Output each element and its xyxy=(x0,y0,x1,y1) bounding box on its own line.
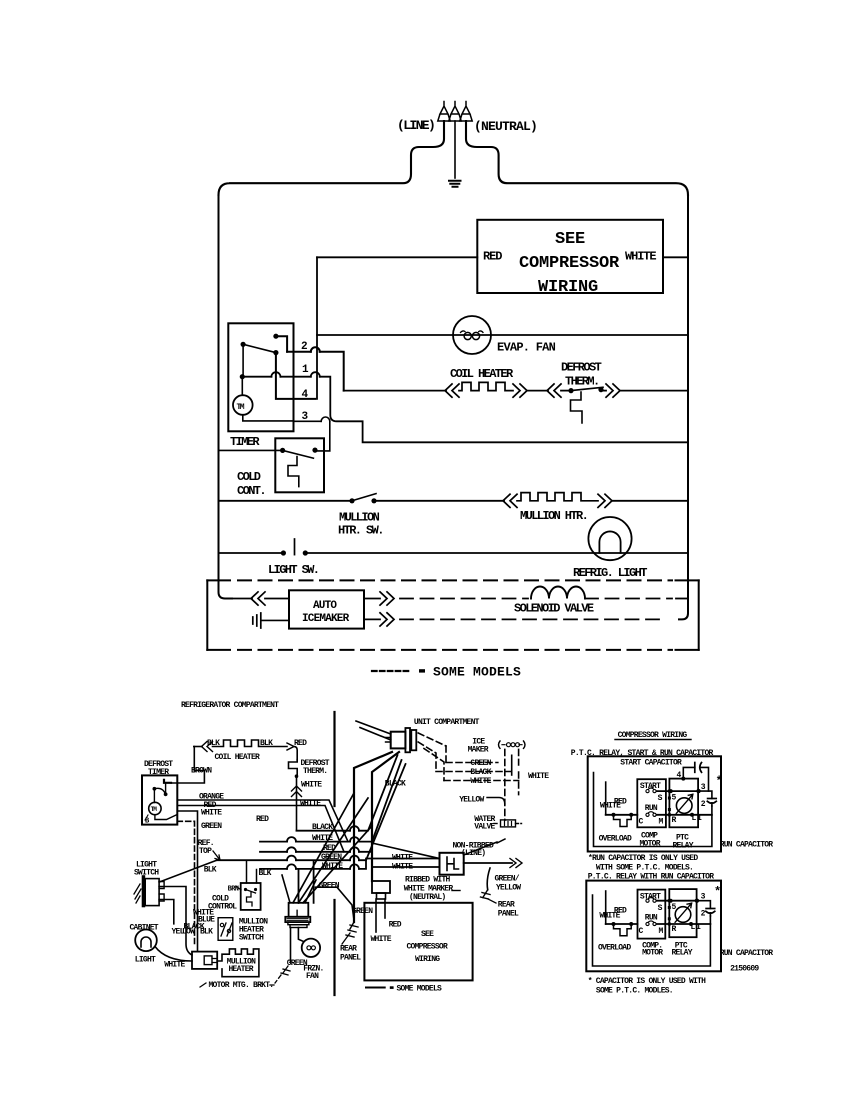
ice maker connector xyxy=(499,741,526,748)
svg-text:GREEN: GREEN xyxy=(470,759,491,768)
legend some models (bottom) xyxy=(366,987,385,989)
plug prong middle xyxy=(454,121,456,178)
svg-text:RED: RED xyxy=(389,921,402,930)
wire TM to terminal 3 xyxy=(243,415,294,421)
vertical dashed to water valve xyxy=(504,749,506,820)
svg-text:CONT.: CONT. xyxy=(237,484,265,498)
svg-text:COIL HEATER: COIL HEATER xyxy=(215,753,261,762)
wire red row from timer xyxy=(177,806,344,852)
start row wire 2 xyxy=(657,900,697,902)
svg-text:ICEMAKER: ICEMAKER xyxy=(302,613,350,625)
svg-text:TM: TM xyxy=(237,403,245,412)
svg-text:*: * xyxy=(716,775,723,789)
compressor box U1 xyxy=(477,220,663,293)
flat plug xyxy=(440,853,464,875)
see compressor wiring box (pictorial) xyxy=(364,903,472,981)
svg-text:LOW: LOW xyxy=(182,928,195,937)
run row wire xyxy=(657,814,712,816)
wire white row to plug xyxy=(372,866,440,868)
svg-text:RED: RED xyxy=(483,250,502,264)
white feed 2 xyxy=(605,891,607,924)
svg-text:RUN CAPACITOR: RUN CAPACITOR xyxy=(720,841,774,850)
svg-text:WIRING: WIRING xyxy=(415,955,440,964)
wire red to compressor xyxy=(384,899,386,918)
wire light switch middle to mullion connector xyxy=(159,887,192,956)
svg-text:BLACK: BLACK xyxy=(312,823,333,832)
svg-text:WITH SOME P.T.C. MODELS.: WITH SOME P.T.C. MODELS. xyxy=(596,864,693,873)
ice maker dashed harness xyxy=(418,733,446,746)
svg-text:YELLOW: YELLOW xyxy=(496,884,521,893)
mullion heater switch symbol xyxy=(218,918,233,941)
evap fan motor xyxy=(453,316,491,354)
wire terminal 2 row xyxy=(287,352,344,391)
svg-text:UNIT COMPARTMENT: UNIT COMPARTMENT xyxy=(414,718,480,727)
svg-text:SOME MODELS: SOME MODELS xyxy=(433,665,521,680)
svg-text:(NEUTRAL): (NEUTRAL) xyxy=(409,893,445,902)
cold control box xyxy=(275,438,324,492)
svg-text:WHITE: WHITE xyxy=(600,802,621,811)
wire bundle stack to unit connector xyxy=(293,793,372,903)
svg-text:COMPRESSOR: COMPRESSOR xyxy=(519,254,620,273)
svg-text:RELAY: RELAY xyxy=(672,949,693,958)
ptc relay box xyxy=(669,779,698,828)
light switch xyxy=(281,550,286,555)
svg-text:RED: RED xyxy=(256,815,269,824)
arrows << xyxy=(445,384,459,397)
svg-text:LIGHT: LIGHT xyxy=(135,956,156,965)
svg-text:RELAY: RELAY xyxy=(673,842,694,851)
green ground dashes xyxy=(281,966,290,975)
coil heater resistor xyxy=(213,740,288,747)
defrost thermostat element xyxy=(289,760,298,777)
wire right border xyxy=(679,195,688,619)
svg-text:OVERLOAD: OVERLOAD xyxy=(598,944,631,953)
wire white down from therm xyxy=(296,776,298,831)
wire terminal 1 row xyxy=(242,377,688,443)
svg-text:BLACK: BLACK xyxy=(470,768,491,777)
svg-text:MOTOR MTG. BRKT.: MOTOR MTG. BRKT. xyxy=(209,981,274,990)
svg-text:C: C xyxy=(639,927,644,936)
svg-text:START CAPACITOR: START CAPACITOR xyxy=(620,759,682,768)
defrost thermostat xyxy=(547,384,561,397)
svg-text:SEE: SEE xyxy=(421,930,434,939)
svg-text:WHITE: WHITE xyxy=(470,777,491,786)
inner loop wire 2 xyxy=(593,895,711,966)
wire green row from timer (dashed, some models) xyxy=(177,821,194,945)
svg-text:COLD: COLD xyxy=(237,470,261,484)
svg-text:COMPRESSOR WIRING: COMPRESSOR WIRING xyxy=(618,731,688,740)
overload protector 2 xyxy=(614,924,632,936)
svg-text:BROWN: BROWN xyxy=(191,767,212,776)
svg-text:MULLION: MULLION xyxy=(339,511,380,525)
rear panel ground left xyxy=(346,922,358,937)
svg-text:GREEN/: GREEN/ xyxy=(495,875,520,884)
wire v2 to small connector xyxy=(372,752,399,881)
wire icemaker out top xyxy=(364,598,380,600)
refrigerator light xyxy=(588,517,631,560)
svg-text:REAR: REAR xyxy=(340,945,357,954)
inner loop wire (white/run cap return) xyxy=(594,773,712,847)
harness row 1 black xyxy=(297,755,398,831)
wire enclosure top with plug bump xyxy=(219,121,445,195)
svg-text:BLK: BLK xyxy=(200,928,213,937)
mullion heater resistor xyxy=(503,494,517,507)
svg-text:WHITE: WHITE xyxy=(625,250,656,264)
svg-text:2: 2 xyxy=(701,910,706,919)
mullion heater connector xyxy=(192,952,217,969)
svg-text:*RUN CAPACITOR IS ONLY USED: *RUN CAPACITOR IS ONLY USED xyxy=(588,854,698,863)
wire left border xyxy=(219,195,233,599)
timer contacts xyxy=(153,787,157,791)
harness row 2 white xyxy=(260,760,402,842)
harness row 5 white xyxy=(260,859,440,903)
timer contact A xyxy=(273,334,278,339)
svg-text:WHITE: WHITE xyxy=(392,854,413,863)
defrost timer box xyxy=(142,775,177,824)
some models dashed box xyxy=(206,580,208,650)
wire left border to cold control xyxy=(219,449,283,451)
svg-text:WHITE: WHITE xyxy=(371,935,392,944)
svg-text:SOLENOID VALVE: SOLENOID VALVE xyxy=(514,602,594,616)
svg-text:WHITE: WHITE xyxy=(392,863,413,872)
main row with overload xyxy=(606,814,638,816)
svg-text:RIBBED WITH: RIBBED WITH xyxy=(405,876,451,885)
svg-text:SWITCH: SWITCH xyxy=(239,934,264,943)
white wire right xyxy=(518,749,520,794)
cold control contacts xyxy=(280,448,285,453)
wires cold control to harness xyxy=(247,862,257,884)
svg-text:SOME MODELS: SOME MODELS xyxy=(397,985,443,994)
svg-text:MAKER: MAKER xyxy=(468,746,489,755)
plug prong right xyxy=(460,102,472,122)
wire timer to coil heater (brown) xyxy=(171,747,204,784)
svg-text:LIGHT SW.: LIGHT SW. xyxy=(268,563,318,577)
compartment divider wall xyxy=(333,712,335,995)
svg-text:TM: TM xyxy=(151,806,158,813)
svg-text:BLK: BLK xyxy=(204,866,217,875)
svg-text:WIRING: WIRING xyxy=(538,278,598,297)
svg-text:S: S xyxy=(658,904,663,913)
svg-text:HTR. SW.: HTR. SW. xyxy=(338,524,383,538)
run row wire 2 xyxy=(657,923,711,925)
svg-text:VALVE: VALVE xyxy=(474,823,495,832)
auto icemaker box xyxy=(289,590,364,628)
svg-text:DEFROST: DEFROST xyxy=(561,361,602,375)
wire evap fan row xyxy=(317,334,688,336)
svg-text:SOME P.T.C. MODLES.: SOME P.T.C. MODLES. xyxy=(596,987,673,996)
cold control (pictorial) xyxy=(241,883,261,910)
svg-text:M: M xyxy=(659,927,664,936)
svg-text:REAR: REAR xyxy=(498,901,515,910)
svg-text:PANEL: PANEL xyxy=(340,954,361,963)
svg-text:RUN CAPACITOR: RUN CAPACITOR xyxy=(720,949,774,958)
wire RED feed down xyxy=(316,257,318,399)
wire RED row xyxy=(317,256,477,258)
wire coil heater row xyxy=(194,746,202,748)
svg-text:*: * xyxy=(714,885,721,899)
start row wire xyxy=(657,790,699,792)
wire light switch row xyxy=(219,552,689,554)
svg-text:REFRIG. LIGHT: REFRIG. LIGHT xyxy=(573,566,647,580)
run capacitor symbol 2 xyxy=(697,901,711,909)
svg-text:REFRIGERATOR COMPARTMENT: REFRIGERATOR COMPARTMENT xyxy=(181,701,279,710)
wire contact C to terminal 4 xyxy=(276,353,315,399)
run capacitor symbol xyxy=(699,791,712,798)
unit connector xyxy=(391,732,406,749)
wire cabinet light to mullion connector xyxy=(155,947,192,962)
svg-text:SEE: SEE xyxy=(555,230,585,249)
coil heater resistor xyxy=(459,382,513,390)
wire light switch bottom to cabinet light xyxy=(159,900,174,924)
svg-text:COMPRESSOR: COMPRESSOR xyxy=(407,943,448,952)
mullion heater element xyxy=(217,949,259,977)
svg-text:CABINET: CABINET xyxy=(130,924,159,933)
wire orange row from timer xyxy=(177,800,348,842)
svg-text:WHITE: WHITE xyxy=(201,809,222,818)
wire black vertical v1 xyxy=(354,752,392,922)
icemaker plug xyxy=(253,613,261,628)
svg-text:4: 4 xyxy=(302,389,309,401)
svg-text:WHITE: WHITE xyxy=(301,781,322,790)
svg-text:2: 2 xyxy=(701,800,706,809)
PTC relay start+run capacitor box xyxy=(588,756,721,851)
svg-text:YELLOW: YELLOW xyxy=(459,796,484,805)
svg-text:WHITE: WHITE xyxy=(528,772,549,781)
wire terminal 3 to cold control xyxy=(294,421,330,451)
svg-text:START: START xyxy=(640,782,661,791)
ground xyxy=(449,181,461,187)
svg-text:WHITE: WHITE xyxy=(599,912,620,921)
wires into connector top left xyxy=(356,721,391,740)
svg-text:PANEL: PANEL xyxy=(498,910,519,919)
wire icemaker out bottom xyxy=(364,618,380,620)
rear panel ground right xyxy=(481,890,491,899)
svg-text:MOTOR: MOTOR xyxy=(640,840,661,849)
svg-text:(LINE): (LINE) xyxy=(397,118,434,133)
comp motor box xyxy=(637,779,666,827)
svg-text:GREEN: GREEN xyxy=(352,907,373,916)
svg-text:GREEN: GREEN xyxy=(201,822,222,831)
timer motor TM xyxy=(149,802,161,814)
svg-text:COIL HEATER: COIL HEATER xyxy=(450,367,514,381)
svg-text:* CAPACITOR IS ONLY USED WITH: * CAPACITOR IS ONLY USED WITH xyxy=(588,977,706,986)
left connector stack xyxy=(282,875,316,903)
ptc disc xyxy=(676,798,692,814)
arrow to defrost therm xyxy=(287,743,294,750)
svg-text:M: M xyxy=(659,818,664,827)
wire WHITE row xyxy=(663,256,688,258)
svg-text:BLK: BLK xyxy=(260,739,273,748)
svg-text:R: R xyxy=(672,816,677,825)
harness row 4 green xyxy=(217,764,406,903)
svg-text:HEATER: HEATER xyxy=(229,965,254,974)
svg-text:2150609: 2150609 xyxy=(730,965,759,974)
ptc relay box 2 xyxy=(669,889,696,937)
svg-text:SWITCH: SWITCH xyxy=(134,869,159,878)
svg-text:S: S xyxy=(658,794,663,803)
svg-text:BLK: BLK xyxy=(259,869,272,878)
timer contact B and blade xyxy=(241,342,246,347)
wire mullion heater row xyxy=(219,500,505,502)
svg-text:WHITE: WHITE xyxy=(300,800,321,809)
mullion heater switch xyxy=(349,498,354,503)
svg-text:C: C xyxy=(639,818,644,827)
legend some models xyxy=(372,670,411,672)
start capacitor wiring xyxy=(683,767,695,778)
freezer fan motor xyxy=(302,939,320,957)
light switch body xyxy=(142,875,146,907)
svg-text:TOP: TOP xyxy=(199,847,212,856)
svg-text:AUTO: AUTO xyxy=(313,600,337,612)
svg-text:1: 1 xyxy=(302,364,309,376)
overload protector xyxy=(614,815,632,827)
timer contact D xyxy=(240,374,245,379)
PTC relay with run capacitor box xyxy=(586,881,721,972)
comp motor box 2 xyxy=(638,890,666,939)
wire down to defrost therm xyxy=(294,747,297,760)
svg-text:FAN: FAN xyxy=(306,972,319,981)
svg-text:THERM.: THERM. xyxy=(303,767,327,776)
svg-text:R: R xyxy=(672,925,677,934)
svg-text:EVAP. FAN: EVAP. FAN xyxy=(497,341,556,355)
svg-text:MOTOR: MOTOR xyxy=(642,949,663,958)
wire plug output xyxy=(464,862,512,864)
solenoid valve coil xyxy=(531,587,585,599)
plug prong left xyxy=(438,102,450,122)
white feed wire xyxy=(605,782,607,815)
svg-text:BLACK: BLACK xyxy=(385,780,406,789)
timer motor TM xyxy=(233,395,253,415)
svg-text:THERM.: THERM. xyxy=(565,375,599,389)
svg-text:TIMER: TIMER xyxy=(230,435,260,449)
wire coil heater row xyxy=(344,390,446,392)
wire white to compressor xyxy=(375,899,377,932)
arrows >> xyxy=(513,384,527,397)
svg-text:(NEUTRAL): (NEUTRAL) xyxy=(474,119,537,134)
harness row 3 red xyxy=(260,851,372,853)
timer box xyxy=(228,323,293,431)
wire icemaker row xyxy=(232,598,252,600)
svg-text:OVERLOAD: OVERLOAD xyxy=(599,835,632,844)
svg-text:WHITE: WHITE xyxy=(164,961,185,970)
wire white row from timer xyxy=(177,811,197,952)
small connector (compressor leads) xyxy=(372,881,390,893)
svg-text:MULLION HTR.: MULLION HTR. xyxy=(520,509,587,523)
wire light switch to harness (blk diagonal) xyxy=(159,860,217,882)
svg-text:5: 5 xyxy=(672,794,677,803)
wires below stack xyxy=(298,928,303,942)
wire green to rear panel xyxy=(316,887,355,920)
main row 2 with overload xyxy=(606,923,638,925)
ptc disc 2 xyxy=(675,907,691,923)
